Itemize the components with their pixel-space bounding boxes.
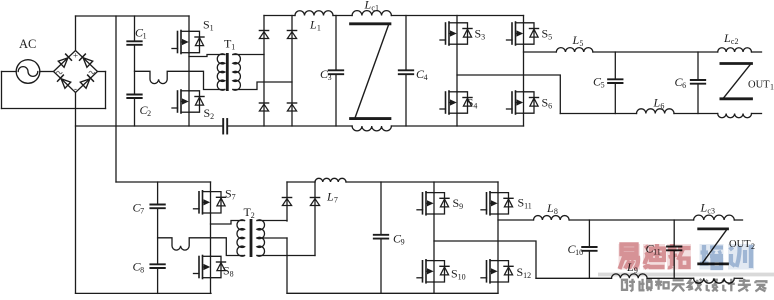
svg-text:1: 1 (317, 24, 321, 33)
svg-text:4: 4 (424, 73, 428, 82)
svg-text:c3: c3 (707, 207, 715, 216)
svg-text:8: 8 (554, 207, 558, 216)
svg-text:L: L (653, 96, 661, 110)
svg-text:4: 4 (473, 102, 477, 111)
svg-text:7: 7 (334, 196, 338, 205)
svg-text:2: 2 (147, 109, 151, 118)
svg-text:L: L (723, 31, 731, 45)
svg-text:5: 5 (579, 39, 583, 48)
svg-text:AC: AC (19, 37, 36, 51)
svg-text:c1: c1 (371, 4, 379, 13)
svg-text:+: + (73, 51, 78, 61)
svg-text:1: 1 (210, 24, 214, 33)
svg-text:L: L (700, 201, 708, 215)
svg-text:6: 6 (660, 102, 664, 111)
svg-text:L: L (572, 33, 580, 47)
svg-text:3: 3 (481, 33, 485, 42)
svg-text:7: 7 (232, 193, 236, 202)
svg-text:10: 10 (458, 273, 466, 282)
svg-text:1: 1 (770, 83, 774, 92)
svg-text:L: L (364, 0, 372, 12)
svg-text:2: 2 (251, 211, 255, 220)
svg-text:L: L (546, 201, 554, 215)
svg-text:5: 5 (601, 81, 605, 90)
svg-text:9: 9 (459, 202, 463, 211)
svg-text:8: 8 (140, 266, 144, 275)
svg-text:OUT: OUT (748, 80, 770, 91)
svg-text:1: 1 (231, 42, 235, 51)
svg-text:1: 1 (143, 32, 147, 41)
svg-text:7: 7 (140, 207, 144, 216)
svg-text:2: 2 (210, 112, 214, 121)
svg-text:5: 5 (548, 33, 552, 42)
svg-text:L: L (309, 18, 317, 32)
svg-text:9: 9 (401, 238, 405, 247)
svg-text:11: 11 (524, 202, 532, 211)
svg-text:c2: c2 (731, 37, 739, 46)
svg-text:-: - (74, 84, 77, 94)
svg-text:6: 6 (548, 102, 552, 111)
svg-text:12: 12 (523, 271, 531, 280)
svg-text:3: 3 (328, 73, 332, 82)
svg-text:10: 10 (575, 248, 583, 257)
svg-text:L: L (326, 190, 334, 204)
svg-text:6: 6 (682, 81, 686, 90)
svg-text:8: 8 (230, 270, 234, 279)
